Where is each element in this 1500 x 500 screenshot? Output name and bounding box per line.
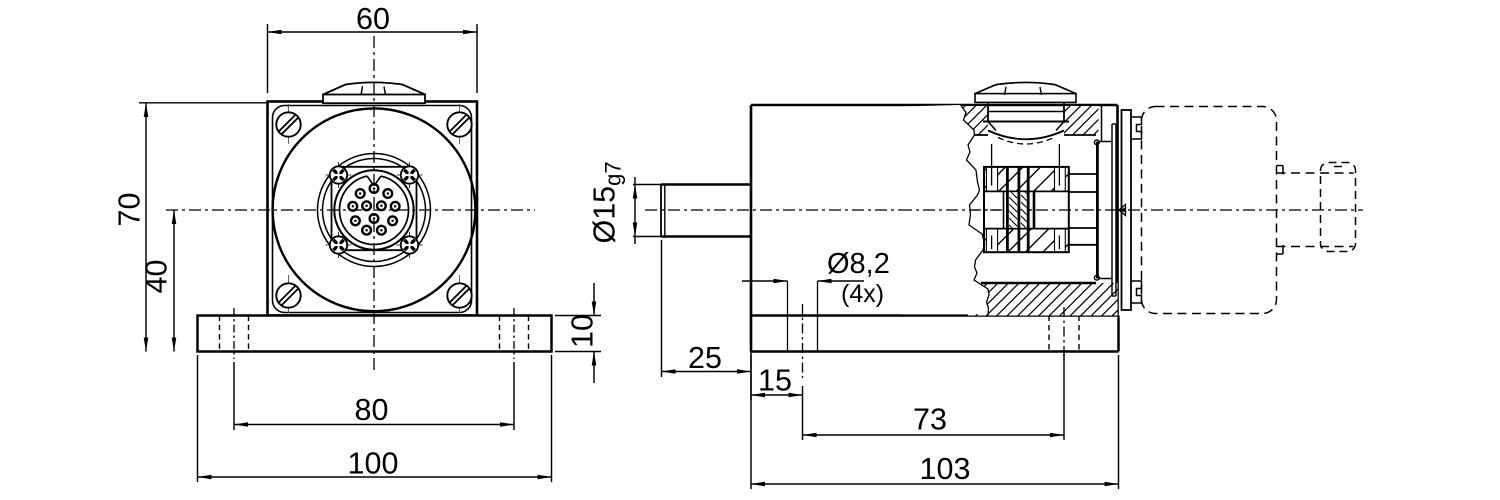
connector pin center dots	[352, 187, 397, 231]
stack clamp pins	[992, 144, 1060, 249]
dimension 73	[803, 352, 1065, 440]
dimension 103	[751, 355, 1119, 489]
cap plug in bore	[983, 103, 1069, 144]
shaft collar disc	[1069, 174, 1096, 245]
dimension Ø15g7	[588, 161, 666, 244]
stack band edges	[984, 191, 1069, 228]
hatch top-right block	[1064, 106, 1099, 142]
phillips screw flange bottom-right	[397, 232, 423, 258]
clamp tab top	[1131, 117, 1142, 139]
housing cylinder big circle	[273, 108, 476, 311]
inner shaft lines	[1069, 192, 1096, 228]
hatch bottom band	[968, 283, 1118, 316]
svg-text:10: 10	[566, 314, 600, 348]
dimension 70	[113, 103, 268, 352]
break wavy line	[961, 105, 990, 316]
hatch top-left block	[956, 106, 988, 135]
base hole left centerline	[233, 308, 235, 359]
cap base rect	[323, 95, 425, 104]
connector pins	[348, 184, 399, 234]
base hole left (hidden)	[220, 316, 249, 352]
dimension 15	[751, 352, 803, 401]
clamp ring	[1122, 110, 1132, 310]
svg-text:15: 15	[758, 364, 792, 398]
connector recess circle outer	[318, 154, 431, 267]
svg-text:40: 40	[140, 260, 174, 294]
corner screw bottom-left	[276, 275, 300, 313]
svg-text:60: 60	[356, 2, 390, 36]
vertical centerline front view	[373, 36, 375, 374]
cap slot marks side	[1005, 87, 1042, 95]
base plate (front view)	[198, 316, 552, 352]
svg-text:103: 103	[920, 452, 971, 486]
stack slots	[986, 167, 1065, 252]
cap slot marks	[361, 86, 386, 95]
corner screw top-left	[276, 104, 300, 144]
clamp tab bottom	[1131, 281, 1142, 303]
stack shaft left end	[1003, 191, 1005, 228]
phillips screw flange top-right	[397, 162, 423, 188]
seat circle bottom	[1094, 275, 1099, 280]
dimension 100	[198, 355, 552, 482]
cap (left view) dome	[323, 82, 425, 94]
dimension 60	[268, 2, 478, 93]
dimension 25	[662, 240, 752, 377]
svg-text:100: 100	[348, 447, 399, 481]
dimension 80	[234, 362, 514, 430]
body outline	[751, 105, 1118, 352]
housing outer square	[268, 102, 478, 316]
svg-text:Ø8,2: Ø8,2	[827, 248, 890, 280]
base hole right (hidden, side)	[1049, 316, 1079, 352]
element stack hatched bands	[984, 167, 1069, 252]
cavity ceiling	[975, 135, 1112, 142]
connector flange square	[332, 167, 417, 250]
stack mid hatched discs	[1009, 192, 1026, 227]
center cone right face	[1119, 205, 1126, 216]
membrane lines	[1112, 124, 1116, 296]
connector shell inner circle	[340, 176, 409, 245]
phantom nut	[1321, 163, 1356, 252]
phillips screw flange top-left	[326, 162, 352, 188]
stack outline	[984, 167, 1069, 252]
horizontal centerline front view	[166, 209, 535, 211]
base hole right centerline	[513, 308, 515, 359]
dimension Ø8,2 (4x)	[742, 248, 890, 308]
corner screw bottom-right	[447, 275, 471, 313]
seat circle top	[1094, 140, 1099, 145]
housing front face inner rounded square	[273, 106, 472, 313]
connector shell outer circle	[334, 170, 413, 249]
svg-text:70: 70	[113, 193, 147, 227]
svg-text:(4x): (4x)	[841, 280, 884, 308]
phantom accessory body	[1142, 107, 1277, 314]
horizontal centerline side view	[645, 209, 1363, 211]
end wall	[1096, 142, 1099, 279]
svg-text:73: 73	[913, 403, 947, 437]
break line white-out	[900, 105, 989, 314]
connector recess circle inner	[323, 159, 426, 262]
dimension 40	[140, 210, 177, 352]
cap (side view) dome	[975, 82, 1076, 93]
groove wall top	[1101, 105, 1103, 142]
svg-text:25: 25	[688, 341, 722, 375]
dimension 10	[555, 283, 601, 383]
shaft collar face	[1033, 191, 1036, 228]
centerline redraw over section	[900, 209, 1000, 211]
cavity floor	[981, 279, 1112, 284]
base hole left centerline side	[802, 304, 804, 378]
corner screw top-right	[447, 104, 471, 144]
phillips screw flange bottom-left	[326, 232, 352, 258]
shaft	[661, 185, 751, 237]
base hole right (hidden)	[500, 316, 529, 352]
phantom neck	[1277, 166, 1354, 255]
cap base rect side	[975, 94, 1076, 103]
base plate (side view)	[751, 316, 1119, 352]
keyway notch	[367, 173, 381, 185]
base hole right centerline side	[1063, 307, 1065, 360]
stack disc bars	[1007, 167, 1028, 252]
svg-text:80: 80	[355, 393, 389, 427]
base hole left (side, section)	[788, 281, 818, 352]
